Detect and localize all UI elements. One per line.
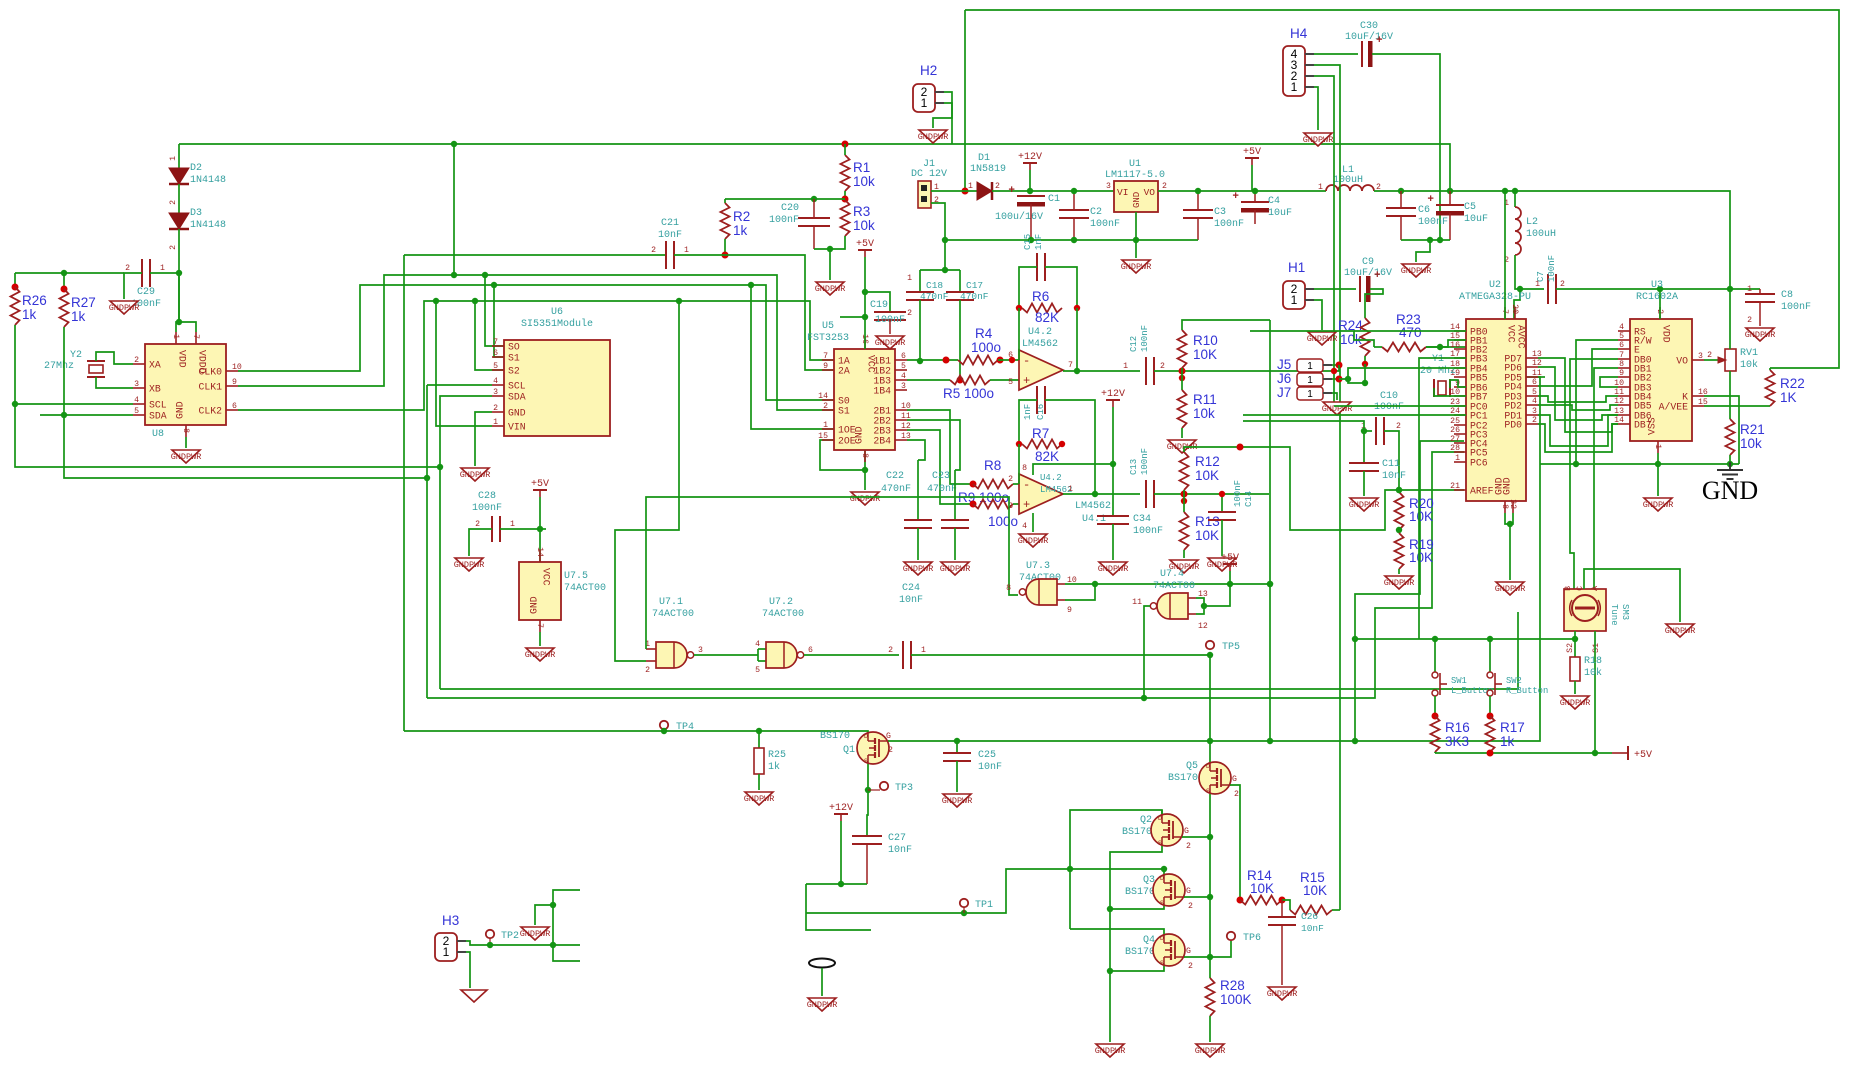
svg-text:D: D [864, 733, 868, 740]
svg-text:28: 28 [1450, 444, 1460, 453]
capacitor C11 10nF [1363, 431, 1365, 463]
wire U3 VDD riser [1659, 289, 1661, 319]
wire Q5 drain-source chain vertical [1209, 740, 1211, 762]
svg-text:74ACT00: 74ACT00 [564, 583, 606, 594]
svg-text:SW2: SW2 [1506, 676, 1522, 686]
svg-text:2: 2 [1162, 182, 1167, 191]
svg-text:H3: H3 [442, 913, 459, 928]
svg-text:100uH: 100uH [1526, 229, 1556, 240]
svg-text:1: 1 [1291, 293, 1298, 307]
resistor R16 3K3 [1431, 716, 1440, 752]
svg-text:2: 2 [888, 746, 893, 755]
resistor R26 1k [14, 273, 16, 287]
resistor R21 10k [1726, 419, 1735, 455]
svg-text:2: 2 [1008, 475, 1013, 484]
capacitor C3 100nF [1197, 191, 1199, 210]
svg-text:82K: 82K [1035, 310, 1059, 325]
svg-text:+5V: +5V [1634, 750, 1652, 761]
op-amp U4.1 LM4562 [1019, 474, 1063, 514]
svg-text:C8: C8 [1781, 290, 1793, 301]
svg-text:8: 8 [860, 453, 869, 458]
svg-text:R7: R7 [1032, 426, 1049, 441]
svg-text:6: 6 [1008, 351, 1013, 360]
wire D3 cathode down to C29 node [178, 229, 180, 320]
svg-text:Tune: Tune [1609, 604, 1619, 626]
wire U3 VSS to gnd line [1657, 453, 1659, 464]
svg-text:7: 7 [191, 334, 200, 339]
wire U5 2B3 to R9 net [907, 430, 973, 504]
svg-text:U4.2: U4.2 [1040, 473, 1062, 483]
svg-text:100nF: 100nF [1140, 448, 1150, 475]
svg-text:S2: S2 [508, 366, 520, 377]
svg-text:GNDPWR: GNDPWR [918, 132, 949, 142]
svg-text:VIN: VIN [508, 422, 526, 433]
svg-text:1: 1 [1307, 375, 1313, 386]
svg-text:+12V: +12V [1018, 152, 1042, 163]
svg-text:2: 2 [1747, 316, 1752, 325]
svg-text:11: 11 [1132, 598, 1142, 607]
wire C17/C18 common top node [920, 269, 960, 271]
svg-text:R12: R12 [1195, 454, 1220, 469]
svg-text:4: 4 [755, 640, 760, 649]
svg-text:10K: 10K [1195, 468, 1219, 483]
wire RV1 bottom to R21 [1729, 371, 1731, 419]
svg-text:SO: SO [508, 342, 520, 353]
svg-text:A/VEE: A/VEE [1659, 402, 1689, 413]
svg-text:2: 2 [1188, 962, 1193, 971]
svg-text:1k: 1k [71, 309, 86, 324]
svg-text:GNDPWR: GNDPWR [1098, 564, 1129, 574]
ground triangle below H3 [461, 990, 487, 1002]
svg-text:GNDPWR: GNDPWR [109, 303, 140, 313]
svg-text:6: 6 [232, 402, 237, 411]
svg-text:8: 8 [1500, 504, 1509, 509]
ground GNDPWR below C23 [941, 562, 969, 575]
junction C1 gnd [1028, 237, 1034, 243]
solder jumper pad [809, 959, 835, 968]
wire H2 pin2 to +12V rail [944, 92, 952, 144]
wire R2 bottom to C21 net [724, 239, 726, 255]
svg-text:100o: 100o [971, 340, 1001, 355]
svg-text:U7.5: U7.5 [564, 571, 588, 582]
node J1-D1 [962, 188, 969, 195]
ground GNDPWR below R25 [745, 792, 773, 805]
svg-text:2: 2 [1160, 362, 1165, 371]
test point TP2 [486, 930, 494, 938]
svg-text:R17: R17 [1500, 720, 1525, 735]
wire CLK0 branch to U6 S1 [494, 285, 504, 357]
power +5V for U7 [533, 489, 547, 491]
wire D1 cathode to +12V node [992, 190, 1114, 192]
svg-text:+12V: +12V [829, 803, 853, 814]
wire Q3 gate [1184, 896, 1210, 898]
svg-text:100nF: 100nF [1547, 255, 1557, 282]
svg-text:5: 5 [755, 666, 760, 675]
wire R8 to opamp U4.1 minus [1013, 483, 1019, 485]
svg-text:14: 14 [818, 392, 828, 401]
power +5V symbol near C4 [1245, 157, 1259, 159]
svg-text:6: 6 [808, 646, 813, 655]
svg-text:6: 6 [493, 349, 498, 358]
svg-text:D3: D3 [190, 208, 202, 219]
wire U5 1B1 to R4 [907, 359, 958, 361]
svg-text:10K: 10K [1193, 347, 1217, 362]
svg-text:C27: C27 [888, 833, 906, 844]
svg-text:R13: R13 [1195, 514, 1220, 529]
IC U8 clock generator [145, 344, 226, 425]
wire U6 SCL riser down to bus [427, 384, 492, 386]
wire CLK1 branch to U6 SO [485, 275, 504, 346]
wire PD6 to DB bundle [1538, 367, 1618, 420]
wire R23 left to PB0 net [1250, 331, 1374, 347]
svg-text:J5: J5 [1277, 357, 1291, 372]
ground GNDPWR below U8 [172, 450, 200, 463]
svg-text:100nF: 100nF [1133, 526, 1163, 537]
wire gnd rail under power input [945, 239, 1198, 241]
svg-text:7: 7 [823, 352, 828, 361]
power +12V for opamps [1106, 399, 1120, 401]
wire R4 to opamp minus [998, 359, 1019, 361]
svg-text:S2: S2 [1566, 643, 1575, 653]
IC U7.5 74ACT00 power block [519, 562, 561, 620]
wire CLK1 net [238, 275, 834, 410]
junction R/W gnd line [1573, 461, 1579, 467]
svg-text:1: 1 [171, 334, 180, 339]
svg-text:VO: VO [1144, 187, 1156, 198]
svg-text:100nF: 100nF [1090, 219, 1120, 230]
svg-text:8: 8 [181, 428, 190, 433]
wire J1 pin1 to D1 [931, 190, 977, 192]
ground GNDPWR below U1 [1122, 260, 1150, 273]
diode D3 1N4148 [178, 184, 180, 213]
svg-text:VSS: VSS [1647, 417, 1658, 435]
svg-text:2: 2 [475, 520, 480, 529]
svg-text:C19: C19 [870, 300, 888, 311]
svg-text:D: D [1160, 875, 1164, 882]
wire C20 bottom / R3 bottom to ground [814, 236, 845, 249]
svg-text:470: 470 [1399, 325, 1422, 340]
wire SM3 S1 down to +5V line [1594, 631, 1596, 753]
svg-text:7: 7 [535, 623, 544, 628]
svg-text:2: 2 [1532, 416, 1537, 425]
wire +5V line bottom right [1435, 752, 1612, 754]
svg-text:100nF: 100nF [1214, 219, 1244, 230]
svg-text:1K: 1K [1780, 390, 1797, 405]
ground GNDPWR below C25 [943, 794, 971, 807]
resistor R28 100K [1206, 978, 1215, 1016]
wire SW1 to R16 [1434, 696, 1436, 716]
svg-text:VDD: VDD [1661, 325, 1672, 343]
wire U7.1 output to U7.2 inputs [694, 654, 758, 656]
wire AVCC rail to U3 VDD and C8 [1556, 288, 1760, 290]
svg-text:22: 22 [1508, 499, 1517, 509]
svg-text:10k: 10k [1193, 406, 1215, 421]
ground GNDPWR below C19 [876, 336, 904, 349]
wire R21 bottom to gnd symbol [1729, 455, 1731, 470]
svg-text:LM1117-5.0: LM1117-5.0 [1105, 170, 1165, 181]
wire U5 2B4 stub to C22 [907, 440, 925, 460]
svg-text:7: 7 [1619, 351, 1624, 360]
resistor R25 1k box style [758, 731, 760, 748]
ground GNDPWR below jumper [808, 998, 836, 1011]
power +5V at line end [1627, 746, 1629, 760]
wire H1 pin1 to ground [1314, 300, 1322, 330]
svg-text:1: 1 [160, 264, 165, 273]
wire RV1 wiper from VO [1704, 359, 1718, 361]
svg-text:GNDPWR: GNDPWR [875, 338, 906, 348]
wire U8 GND down [185, 437, 187, 448]
wire C10 pin1 riser to left bus [1243, 421, 1364, 431]
svg-text:+: + [1008, 185, 1015, 197]
svg-text:J6: J6 [1277, 371, 1291, 386]
resistor R22 1K [1766, 370, 1775, 406]
svg-text:1: 1 [493, 418, 498, 427]
svg-text:7: 7 [493, 338, 498, 347]
wire PD3 to DB4 [1538, 396, 1618, 402]
svg-text:-: - [1023, 354, 1030, 368]
svg-text:LM4562: LM4562 [1022, 339, 1058, 350]
svg-text:2: 2 [493, 404, 498, 413]
svg-text:100nF: 100nF [472, 503, 502, 514]
wire 2OE loop below U5 [820, 440, 865, 470]
wire C10 right to R20 top riser [1384, 431, 1399, 490]
ground GNDPWR right of SM3 [1666, 624, 1694, 637]
svg-text:BS170: BS170 [820, 731, 850, 742]
ground GNDPWR below U6 [461, 468, 489, 481]
svg-text:B: B [1564, 586, 1573, 591]
wire U2 GND pins join [1505, 513, 1513, 524]
svg-text:S: S [1206, 788, 1210, 795]
svg-text:GNDPWR: GNDPWR [1560, 698, 1591, 708]
wire y869 to Q3 drain [1070, 869, 1164, 874]
svg-text:GND: GND [854, 426, 865, 444]
wire DB2/DB3 stubs [1600, 377, 1618, 387]
wire U8 SDA net to left [40, 414, 133, 416]
svg-text:100nF: 100nF [769, 215, 799, 226]
resistor R11 10k [1181, 371, 1183, 390]
svg-text:-: - [1023, 478, 1030, 492]
svg-text:SW1: SW1 [1451, 676, 1467, 686]
svg-text:GNDPWR: GNDPWR [460, 470, 491, 480]
ground GNDPWR below U3 [1644, 498, 1672, 511]
svg-text:1: 1 [823, 421, 828, 430]
svg-text:PD0: PD0 [1504, 420, 1522, 431]
wire vertical x454 from rail down to CLK1 line [453, 144, 455, 275]
svg-text:470nF: 470nF [927, 484, 957, 495]
wire U6 GND to ground [475, 412, 492, 466]
ground GNDPWR below Q sources [1096, 1044, 1124, 1057]
svg-text:2: 2 [169, 245, 178, 250]
svg-text:1: 1 [443, 945, 450, 959]
wire +12V/C27 bottom joining TP1 drop [841, 883, 867, 885]
wire R10 top to +5V vertical [1182, 320, 1270, 330]
svg-text:27Mhz: 27Mhz [44, 360, 74, 372]
svg-text:C18: C18 [926, 280, 943, 291]
wire J5 to net [1332, 364, 1339, 366]
wire J6 to net [1332, 378, 1339, 380]
wire C28 right to +5V node [500, 528, 540, 530]
svg-text:U5: U5 [822, 321, 834, 332]
svg-text:BS170: BS170 [1168, 773, 1198, 784]
wire H3 pin1 to ground [466, 952, 470, 988]
wire H2 pin1 to ground [933, 103, 952, 128]
svg-text:R21: R21 [1740, 422, 1765, 437]
svg-text:2: 2 [1396, 422, 1401, 431]
wire C9 right to R24 top [1365, 289, 1383, 318]
svg-text:Y1: Y1 [1432, 354, 1444, 365]
wire CLK2 net [238, 301, 834, 410]
svg-text:GNDPWR: GNDPWR [1267, 989, 1298, 999]
resistor R18 10k box style [1574, 639, 1576, 657]
wire TP4 line to Q1 drain [404, 730, 853, 732]
svg-text:Y2: Y2 [70, 350, 82, 361]
svg-text:U7.4: U7.4 [1160, 569, 1184, 580]
svg-text:AVCC: AVCC [1516, 325, 1527, 349]
svg-text:+5V: +5V [1243, 147, 1261, 158]
svg-text:2B4: 2B4 [873, 436, 891, 447]
svg-text:RV1: RV1 [1740, 348, 1758, 359]
ground GNDPWR under C20/R3 [816, 282, 844, 295]
test point TP4 [660, 721, 668, 729]
wire RV1 top to +5V rail [1729, 289, 1731, 349]
svg-text:1: 1 [968, 182, 973, 191]
svg-text:27: 27 [1450, 435, 1460, 444]
svg-text:10k: 10k [1740, 436, 1762, 451]
ground GNDPWR below H1 [1308, 332, 1336, 345]
svg-text:TP5: TP5 [1222, 642, 1240, 653]
svg-text:R8: R8 [984, 458, 1001, 473]
wire +5V node stub [540, 528, 546, 530]
svg-text:1: 1 [1653, 444, 1662, 449]
svg-text:BS170: BS170 [1122, 827, 1152, 838]
capacitor C20 100nF [813, 199, 815, 218]
ground GNDPWR below U2 [1496, 582, 1524, 595]
svg-text:5: 5 [493, 362, 498, 371]
svg-text:S1: S1 [838, 406, 850, 417]
svg-text:1: 1 [1318, 183, 1323, 192]
wire U7.1 pin1 riser to U7.3 output [646, 497, 1018, 649]
svg-text:4: 4 [1022, 522, 1027, 531]
svg-text:10uF: 10uF [1268, 208, 1292, 219]
svg-text:SCL: SCL [149, 400, 167, 411]
svg-text:CLK1: CLK1 [198, 382, 222, 393]
svg-text:G: G [1186, 887, 1191, 896]
svg-text:1: 1 [921, 646, 926, 655]
wire R26/R27 tops to C29 net [15, 272, 124, 274]
svg-text:2: 2 [888, 646, 893, 655]
svg-text:S: S [1160, 960, 1164, 967]
ground GNDPWR below R13 [1170, 560, 1198, 573]
wire U7.4 inputs to +5V net [1196, 598, 1204, 614]
wire Y1 to PB6/PB7 [1450, 380, 1466, 388]
gnd distribution line under U3 [1540, 463, 1739, 465]
svg-text:74ACT00: 74ACT00 [1153, 581, 1195, 592]
svg-text:21: 21 [1450, 482, 1460, 491]
earth ground GND [1729, 462, 1731, 470]
svg-text:U4.2: U4.2 [1028, 327, 1052, 338]
capacitor C5 10uF polarized [1449, 191, 1451, 205]
wire C13 out to R12/R13 node [1154, 493, 1269, 495]
diode D2 1N4148 [178, 144, 180, 168]
wire H1 pin2 to C9 [1314, 288, 1356, 290]
svg-text:10k: 10k [1584, 667, 1602, 679]
svg-text:+5V: +5V [531, 479, 549, 490]
svg-text:SDA: SDA [508, 392, 526, 403]
svg-text:G: G [1184, 827, 1189, 836]
bus wire B mid page [426, 478, 428, 698]
svg-text:C12: C12 [1129, 336, 1139, 352]
resistor R27 1k [63, 273, 65, 289]
svg-text:TP1: TP1 [975, 900, 993, 911]
wire Q2 gate [1182, 836, 1210, 838]
wire Q2 drain [1161, 810, 1163, 814]
svg-text:C20: C20 [781, 203, 799, 214]
ground GNDPWR below U4.1 [1019, 534, 1047, 547]
svg-text:3: 3 [1698, 352, 1703, 361]
svg-text:GNDPWR: GNDPWR [1665, 626, 1696, 636]
svg-text:2: 2 [907, 309, 912, 318]
svg-text:R5 100o: R5 100o [943, 386, 994, 401]
svg-text:R11: R11 [1193, 392, 1217, 407]
wire R12 top to AREF routing [1184, 447, 1464, 530]
wire R26 bottom long net to bus [15, 325, 440, 467]
svg-text:1: 1 [1291, 80, 1298, 94]
svg-text:A: A [1591, 586, 1600, 591]
svg-text:GNDPWR: GNDPWR [1401, 266, 1432, 276]
svg-text:4: 4 [901, 372, 906, 381]
ground GNDPWR below R11 [1168, 440, 1196, 453]
wire H3 lower stub [553, 945, 580, 961]
wire H4 pin3 down long vertical [1314, 65, 1340, 910]
wire Q4 drain from common drain drop [1070, 929, 1164, 934]
svg-text:+: + [1427, 194, 1434, 206]
wire SW2 riser [1489, 639, 1491, 672]
wire U8 VDD/VDDO join up to diode net [176, 322, 196, 332]
svg-text:+: + [1023, 498, 1030, 512]
svg-text:GNDPWR: GNDPWR [1643, 500, 1674, 510]
svg-text:14: 14 [535, 547, 544, 557]
svg-text:GNDPWR: GNDPWR [1495, 584, 1526, 594]
svg-text:2: 2 [1188, 902, 1193, 911]
wire vertical from top rail down to D1 input node [964, 10, 966, 191]
svg-text:1: 1 [1068, 485, 1073, 494]
svg-text:3: 3 [698, 646, 703, 655]
wire PD4 to E [1538, 349, 1618, 386]
svg-text:1: 1 [1307, 361, 1313, 372]
svg-text:4: 4 [1532, 397, 1537, 406]
svg-text:5: 5 [901, 362, 906, 371]
svg-text:+5V: +5V [856, 239, 874, 250]
svg-text:C24: C24 [902, 583, 920, 594]
svg-text:G: G [1186, 947, 1191, 956]
svg-text:C13: C13 [1129, 459, 1139, 475]
wire Q1 drain top [853, 731, 868, 732]
svg-text:1: 1 [1307, 389, 1313, 400]
svg-text:R10: R10 [1193, 333, 1218, 348]
svg-text:C25: C25 [978, 750, 996, 761]
svg-text:C4: C4 [1268, 196, 1280, 207]
svg-text:9: 9 [1619, 369, 1624, 378]
svg-text:R26: R26 [22, 293, 47, 308]
svg-text:3: 3 [134, 380, 139, 389]
svg-text:20: 20 [1510, 304, 1519, 314]
svg-text:R28: R28 [1220, 978, 1245, 993]
ground GNDPWR below R19 [1385, 576, 1413, 589]
svg-text:1: 1 [1455, 454, 1460, 463]
svg-text:D1: D1 [978, 153, 990, 164]
wire opamp U4.2 output to C12 [1063, 370, 1140, 372]
svg-text:D: D [1160, 935, 1164, 942]
